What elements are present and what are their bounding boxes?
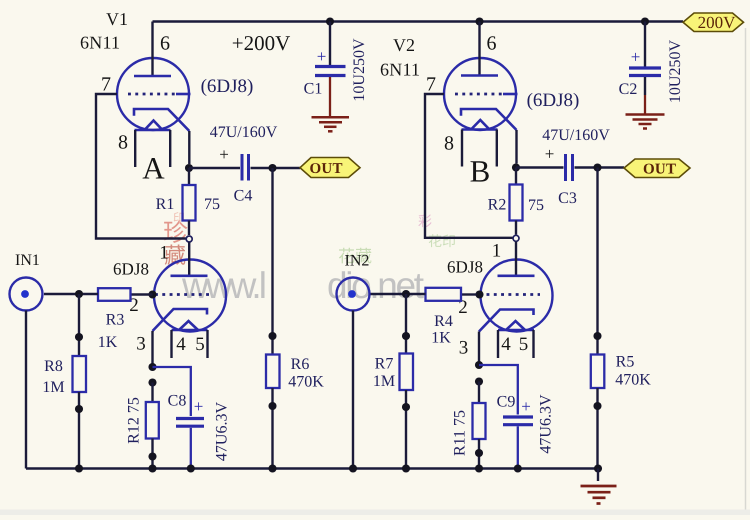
svg-text:B: B [470, 154, 491, 189]
svg-text:IN2: IN2 [345, 253, 370, 270]
node R8 bottom segment [75, 405, 83, 413]
V1b heater base [172, 329, 208, 332]
resistor R6 column [271, 168, 273, 355]
tube V1b lower envelope [154, 260, 226, 332]
svg-text:R7: R7 [375, 356, 394, 373]
svg-text:R12 75: R12 75 [126, 397, 143, 444]
svg-text:1K: 1K [431, 330, 451, 347]
node rail-R8 [75, 464, 83, 472]
C1 lead to ground [329, 77, 331, 116]
svg-text:1K: 1K [98, 334, 118, 351]
ground under C2 [626, 113, 665, 116]
svg-text:1: 1 [492, 241, 502, 262]
tube V1 envelope [117, 58, 189, 130]
V1b heater caret [179, 321, 198, 330]
svg-text:R5: R5 [616, 354, 635, 371]
V2 cathode lead [515, 130, 517, 164]
watermark pink stamp [163, 211, 188, 268]
svg-text:+: + [631, 48, 641, 67]
svg-text:dio.net: dio.net [327, 265, 425, 306]
node R5 top segment [593, 332, 601, 340]
V2 plate lead pin 6 [478, 22, 480, 76]
svg-text:6: 6 [487, 33, 497, 55]
V1 cathode lead down [188, 131, 190, 164]
svg-text:OUT: OUT [310, 161, 343, 177]
node R6 top segment [268, 332, 276, 340]
wire bottom ground rail [26, 467, 598, 469]
svg-text:R11 75: R11 75 [452, 410, 469, 456]
svg-text:200V: 200V [698, 13, 737, 32]
svg-text:R1: R1 [156, 196, 175, 213]
svg-text:R6: R6 [291, 356, 310, 373]
node pin1 circle junction right [513, 235, 519, 241]
node V1b cathode / C8 branch [148, 363, 156, 371]
resistor R12 [151, 383, 153, 403]
V2b plate [498, 274, 535, 277]
node pin1 circle junction left [186, 236, 192, 242]
svg-text:5: 5 [195, 334, 205, 355]
V2 heater pin left [461, 130, 463, 167]
svg-text:3: 3 [136, 334, 146, 355]
svg-text:470K: 470K [615, 372, 651, 389]
node R12 bottom segment [148, 452, 156, 460]
node OUT1 junction [268, 164, 276, 172]
V1b heater pin 4 [170, 330, 172, 358]
capacitor C2 plates [629, 66, 661, 69]
node V1b grid [148, 290, 156, 298]
V2b grid dotted [487, 293, 541, 296]
svg-text:1M: 1M [42, 379, 64, 396]
node rail-IN2 [349, 464, 357, 472]
node rail-R6 [268, 464, 276, 472]
V2b heater pin 4 [497, 330, 499, 358]
V2b cathode [479, 310, 534, 332]
IN1 wire down [25, 311, 27, 469]
svg-text:C1: C1 [304, 81, 323, 98]
svg-text:R8: R8 [44, 358, 63, 375]
svg-text:47U/160V: 47U/160V [210, 124, 278, 141]
svg-text:10U250V: 10U250V [351, 38, 368, 102]
node V1 cathode / R1 / C4 [185, 164, 193, 172]
wire cathode node to C4 [189, 167, 240, 169]
V2b plate lead pin 1 [515, 242, 517, 276]
capacitor C2 lead [644, 22, 646, 67]
node V2b cathode lower [475, 377, 483, 385]
svg-text:+: + [521, 397, 531, 416]
svg-text:R3: R3 [106, 312, 125, 329]
node rail-R11 [475, 464, 483, 472]
V2 cathode [461, 109, 517, 130]
resistor R2 [515, 168, 517, 185]
V1b heater pin 5 [206, 330, 208, 358]
node rail-C1 [326, 17, 334, 25]
node R7 top segment [402, 332, 410, 340]
svg-text:V2: V2 [393, 35, 415, 55]
svg-text:1: 1 [159, 243, 169, 264]
node rail-ground [594, 464, 602, 472]
V1 grid dotted [128, 93, 177, 96]
svg-text:R2: R2 [488, 197, 507, 214]
svg-text:4: 4 [176, 334, 186, 355]
node IN2 junction [402, 290, 410, 298]
svg-text:4: 4 [501, 334, 511, 355]
node V2b cathode / C9 branch [475, 361, 483, 369]
capacitor C1 lead [329, 22, 331, 66]
V2b heater base [498, 329, 534, 332]
V1b plate lead pin 1 [188, 242, 190, 276]
svg-text:IN1: IN1 [15, 252, 40, 269]
V1 heater pin right [169, 130, 171, 167]
svg-text:6DJ8: 6DJ8 [447, 258, 483, 277]
svg-text:5: 5 [519, 334, 529, 355]
svg-text:C9: C9 [497, 394, 516, 411]
node rail-V2 [475, 17, 483, 25]
V1 plate [134, 75, 171, 78]
svg-text:47U/160V: 47U/160V [542, 127, 610, 144]
svg-text:OUT: OUT [643, 162, 676, 178]
resistor R5 column [596, 168, 598, 355]
svg-text:8: 8 [118, 132, 128, 154]
node V1b cathode lower [148, 378, 156, 386]
svg-text:C2: C2 [619, 81, 638, 98]
resistor R3 [131, 293, 153, 295]
main ground [581, 485, 617, 488]
node IN1 junction [75, 290, 83, 298]
watermark green stamp [338, 247, 372, 266]
svg-text:(6DJ8): (6DJ8) [201, 76, 254, 97]
V1b cathode lead pin 3 [151, 331, 153, 367]
svg-text:7: 7 [426, 74, 436, 96]
tube V2b lower envelope [481, 260, 553, 332]
capacitor C9 plates [503, 415, 533, 418]
svg-text:75: 75 [204, 196, 220, 213]
V2 heater pin right [496, 130, 498, 167]
svg-text:(6DJ8): (6DJ8) [527, 90, 580, 111]
svg-text:A: A [142, 151, 165, 186]
capacitor C3 [564, 154, 567, 181]
IN2 wire down [352, 311, 354, 469]
svg-text:花印: 花印 [428, 234, 456, 250]
node rail-R12 [148, 464, 156, 472]
svg-text:+: + [219, 145, 229, 164]
node V2 cathode / R2 / C3 [512, 163, 520, 171]
node R11 bottom segment [475, 449, 483, 457]
node rail-C2 [641, 17, 649, 25]
svg-text:47U6.3V: 47U6.3V [538, 394, 555, 454]
node V2b grid [475, 290, 483, 298]
svg-text:6N11: 6N11 [380, 59, 420, 79]
svg-text:8: 8 [444, 133, 454, 155]
capacitor C9 branch [479, 365, 518, 415]
svg-text:C4: C4 [234, 188, 253, 205]
resistor R1 [188, 168, 190, 185]
V1 cathode [134, 109, 189, 131]
resistor R4 [461, 293, 477, 295]
V1b plate [171, 274, 208, 277]
node rail-C8 [187, 464, 195, 472]
main ground stub [597, 469, 599, 482]
V1b cathode [153, 309, 208, 331]
svg-text:75: 75 [528, 197, 544, 214]
capacitor C8 plates [176, 417, 204, 420]
svg-text:3: 3 [459, 338, 469, 359]
svg-text:+: + [194, 397, 204, 416]
node rail-C9 [514, 464, 522, 472]
flag OUT left channel [300, 158, 360, 178]
flag OUT right channel [624, 159, 690, 178]
node OUT2 junction [593, 163, 601, 171]
wire top +200V rail [153, 20, 684, 22]
watermark gray site text [181, 265, 425, 306]
svg-text:+200V: +200V [232, 31, 291, 55]
resistor R8 [78, 294, 80, 356]
V2 heater caret [471, 120, 490, 130]
svg-text:6DJ8: 6DJ8 [113, 260, 149, 279]
svg-text:C8: C8 [168, 393, 187, 410]
node rail-R7 [402, 464, 410, 472]
scan border right [745, 28, 747, 510]
connector IN1 [10, 278, 43, 311]
connector IN2 [337, 278, 370, 311]
svg-text:6N11: 6N11 [80, 33, 120, 53]
V2 grid pin 7 wire [425, 94, 513, 238]
svg-text:R4: R4 [434, 313, 453, 330]
V1 heater caret [145, 121, 163, 131]
V2 plate [461, 74, 498, 77]
V2 heater base [462, 128, 498, 131]
V2b heater pin 5 [532, 330, 534, 358]
capacitor C8 branch [153, 367, 191, 416]
svg-text:6: 6 [160, 33, 170, 55]
V1b grid dotted [155, 293, 210, 296]
V1 plate lead pin 6 [151, 22, 153, 77]
svg-text:470K: 470K [288, 373, 324, 390]
watermark small stamp near V2 [418, 214, 456, 250]
svg-text:+: + [317, 47, 327, 66]
node R6 bottom segment [268, 402, 276, 410]
svg-text:7: 7 [101, 74, 111, 96]
capacitor C4 [241, 154, 244, 181]
capacitor C1 plates [315, 65, 346, 68]
svg-text:V1: V1 [106, 9, 128, 29]
V1 grid pin 7 wire to lower junction [96, 94, 186, 239]
node R8 top segment [75, 333, 83, 341]
svg-text:10U250V: 10U250V [667, 40, 684, 104]
svg-text:C3: C3 [558, 190, 577, 207]
power flag 200V [683, 13, 744, 32]
svg-text:1M: 1M [373, 373, 395, 390]
V2b heater caret [506, 321, 525, 330]
node R7 bottom segment [402, 403, 410, 411]
C2 lead to ground [644, 77, 646, 95]
V2 grid dotted [455, 93, 503, 96]
V1 heater base line [135, 129, 171, 132]
svg-text:47U6.3V: 47U6.3V [214, 402, 231, 462]
resistor R11 [478, 382, 480, 404]
svg-text:+: + [545, 145, 555, 164]
V1 heater pin left [134, 130, 136, 167]
tube V2 envelope [444, 58, 516, 130]
resistor R7 [405, 294, 407, 354]
scan border bottom [0, 510, 750, 516]
ground under C1 [312, 116, 350, 119]
node R5 bottom segment [593, 402, 601, 410]
V2b cathode lead pin 3 [478, 332, 480, 366]
